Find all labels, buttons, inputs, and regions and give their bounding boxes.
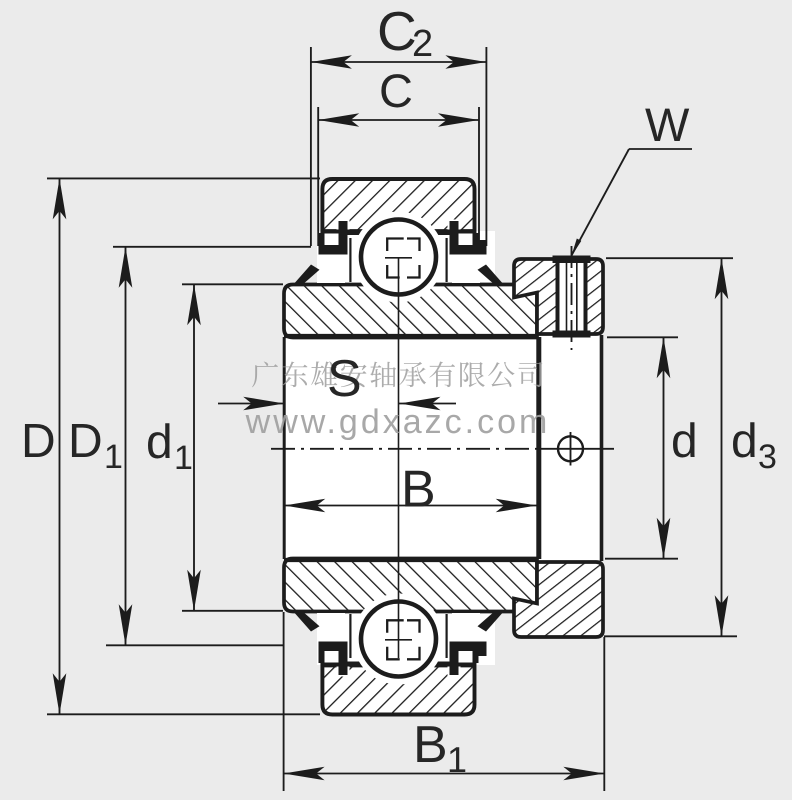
svg-text:www.gdxazc.com: www.gdxazc.com: [245, 403, 551, 441]
svg-text:D: D: [21, 415, 56, 468]
svg-text:d: d: [671, 415, 698, 468]
svg-text:B: B: [413, 716, 448, 774]
svg-text:2: 2: [412, 23, 433, 65]
svg-text:D: D: [68, 415, 103, 468]
svg-text:S: S: [327, 350, 362, 408]
svg-text:3: 3: [758, 438, 777, 476]
svg-text:B: B: [401, 461, 436, 519]
svg-text:1: 1: [174, 439, 193, 477]
svg-text:d: d: [731, 415, 758, 468]
svg-text:C: C: [377, 0, 417, 62]
svg-text:C: C: [379, 64, 413, 117]
svg-text:1: 1: [104, 438, 123, 476]
svg-text:1: 1: [447, 739, 467, 780]
svg-text:d: d: [146, 416, 173, 469]
svg-text:W: W: [645, 98, 690, 151]
